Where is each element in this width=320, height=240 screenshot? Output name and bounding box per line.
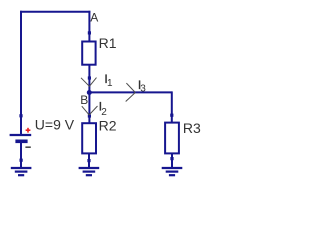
- wire R2 to ground: [88, 154, 90, 168]
- svg-text:1: 1: [107, 78, 113, 89]
- battery cell (negative plate): [15, 140, 27, 144]
- svg-text:A: A: [90, 11, 98, 25]
- junction dot at I2 arrow: [88, 114, 91, 117]
- svg-text:B: B: [80, 93, 88, 107]
- battery minus sign: [25, 146, 30, 148]
- junction dot above R1: [88, 31, 91, 34]
- svg-text:2: 2: [101, 107, 107, 118]
- junction dot below R2: [87, 159, 90, 162]
- node B junction: [87, 90, 92, 95]
- junction dot below R3: [170, 157, 173, 160]
- junction dot above left ground: [20, 159, 23, 162]
- wire R3 to ground: [171, 154, 173, 168]
- junction dot above R3: [170, 114, 173, 117]
- svg-text:U=9 V: U=9 V: [35, 117, 75, 133]
- junction dot on battery wire: [19, 114, 22, 117]
- resistor R3: [165, 123, 179, 154]
- current arrow I2: [82, 106, 98, 115]
- wire top horizontal: [20, 11, 90, 13]
- svg-text:R2: R2: [99, 118, 117, 134]
- ground symbol middle: [79, 168, 100, 175]
- ground symbol right: [162, 168, 183, 175]
- resistor R2: [82, 123, 96, 153]
- resistor R1: [82, 42, 95, 65]
- ground symbol left: [11, 168, 32, 175]
- battery plus sign: [26, 128, 31, 133]
- wire battery to ground: [20, 143, 22, 168]
- wire node A to R1: [88, 11, 90, 42]
- svg-text:R3: R3: [183, 120, 201, 136]
- current arrow I3: [126, 83, 136, 101]
- svg-text:R1: R1: [99, 35, 117, 51]
- current arrow I1: [81, 78, 97, 87]
- wire R3 branch vertical: [171, 91, 173, 122]
- wire left vertical (battery branch): [20, 11, 22, 135]
- wire node B to R3 horizontal: [89, 91, 171, 93]
- wire R1 to R2 through node B: [88, 65, 90, 123]
- svg-text:3: 3: [140, 84, 146, 95]
- battery cell (positive plate): [10, 134, 32, 136]
- junction dot below R1: [88, 76, 91, 79]
